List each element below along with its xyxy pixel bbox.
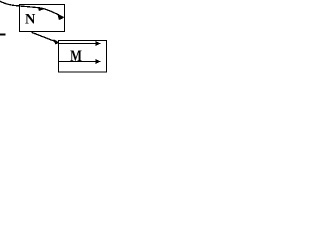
- dash at left edge: [0, 34, 6, 36]
- diagonal arrow N to M: [32, 32, 57, 42]
- end arrowhead at N right border: [57, 14, 64, 20]
- svg-text:N: N: [25, 12, 36, 28]
- arrowhead at M corner: [54, 39, 60, 44]
- arrow 2 inside M: [59, 59, 101, 64]
- box M: [59, 41, 107, 73]
- svg-text:M: M: [70, 48, 82, 65]
- background: [0, 0, 111, 95]
- arrow 1 inside M: [59, 41, 101, 46]
- diagram: two machine boxes N and M with arrows: [0, 0, 111, 95]
- box N: [20, 5, 65, 32]
- mid arrowhead on curve: [38, 7, 44, 11]
- curved arrow into N: [0, 1, 63, 17]
